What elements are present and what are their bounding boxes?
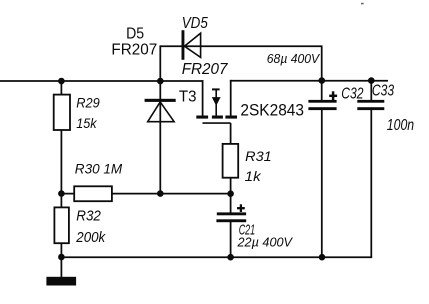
wire T3 column (D5 corner down through T3 to R30 node) [159, 45, 161, 193]
wire C32 riser (top corner down to C32) [321, 45, 323, 100]
wire left column between R29 and R32 [60, 130, 62, 208]
svg-text:C32: C32 [341, 85, 363, 102]
wire left column R29/R32 top segment [60, 81, 62, 95]
wire bottom rail [61, 256, 372, 258]
node rail/C32 [319, 77, 326, 84]
plus sign C32 [329, 91, 337, 100]
wire C33 upper column [370, 81, 372, 101]
node R32/ground/bottom rail [58, 254, 65, 261]
svg-text:FR207: FR207 [111, 41, 157, 58]
resistor R29 [54, 95, 70, 130]
diode T3 [145, 99, 176, 122]
svg-text:R30 1M: R30 1M [75, 161, 123, 177]
node C32/bottom rail [319, 254, 326, 261]
ground [46, 277, 76, 286]
diode VD5 [182, 30, 201, 60]
wire C21 to bottom rail [230, 222, 232, 257]
svg-text:100n: 100n [387, 117, 414, 134]
capacitor C32 [308, 100, 336, 110]
resistor R31 [223, 144, 239, 178]
svg-text:R29: R29 [76, 94, 100, 110]
wire main rail left (input) [0, 80, 203, 82]
svg-text:1k: 1k [245, 168, 262, 184]
transistor 2SK2843 MOSFET [196, 89, 237, 123]
svg-text:2SK2843: 2SK2843 [240, 101, 304, 119]
wire R30 row [61, 193, 230, 195]
resistor R32 [54, 207, 69, 243]
wire gate to R31 [230, 123, 232, 144]
wire left column R32 to ground [60, 243, 62, 278]
svg-text:200k: 200k [75, 230, 105, 246]
capacitor C33 [357, 100, 384, 110]
wire R31 to C21 [230, 177, 232, 212]
resistor R30 [74, 186, 112, 201]
node C21/bottom rail [227, 254, 234, 261]
wire MOSFET drain drop [202, 80, 204, 116]
svg-text:15k: 15k [76, 115, 97, 131]
node rail/C33 [368, 77, 375, 84]
node rail/T3 [157, 78, 164, 85]
svg-text:C33: C33 [372, 82, 394, 99]
plus sign C21 [237, 204, 245, 212]
capacitor C21 [216, 212, 246, 222]
node R29/R30/R32 [58, 190, 65, 197]
wire C32 lower column [321, 110, 323, 257]
svg-text:VD5: VD5 [182, 15, 208, 32]
svg-text:FR207: FR207 [182, 61, 229, 78]
speck (scan artifact) [361, 3, 364, 5]
wire main rail right (output) [230, 80, 388, 82]
node R31/C21/R30 [227, 190, 234, 197]
node rail/R29 [58, 78, 65, 85]
wire top branch through VD5 [160, 45, 321, 47]
svg-text:D5: D5 [126, 26, 144, 43]
svg-text:R32: R32 [76, 209, 101, 225]
node T3/R30 [157, 190, 164, 197]
svg-text:R31: R31 [245, 148, 272, 164]
wire MOSFET source drop [230, 80, 232, 116]
svg-text:22µ 400V: 22µ 400V [236, 236, 293, 250]
svg-text:T3: T3 [179, 89, 197, 106]
wire C33 lower column [370, 110, 372, 258]
svg-text:68µ 400V: 68µ 400V [267, 51, 321, 66]
